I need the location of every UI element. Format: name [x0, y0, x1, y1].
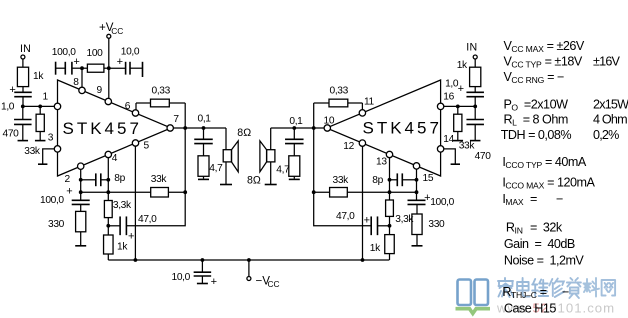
svg-text:2: 2 [65, 174, 71, 185]
svg-text:33k: 33k [24, 146, 41, 157]
label 100,0 right bottom [430, 197, 454, 208]
wire rail to pin 8 [81, 68, 83, 87]
junction rail 10,0 [201, 258, 205, 262]
capacitor 8p left [81, 173, 109, 186]
label 1,0 left [1, 102, 15, 113]
resistor 100 top [82, 64, 109, 72]
terminal -VCC [247, 260, 251, 281]
label 330 left [48, 219, 65, 230]
label 47,0 left [138, 214, 157, 225]
svg-text:9: 9 [97, 85, 103, 96]
wire 0,33 to pin 6 [135, 103, 137, 110]
label + of 1,0 left [9, 84, 15, 96]
wire output right [271, 127, 325, 129]
svg-text:7: 7 [173, 114, 179, 125]
label pin 16 [443, 91, 454, 102]
op-amp U2 STK457 right triangle [327, 80, 441, 176]
label + of 100,0 left bottom [66, 186, 72, 198]
label 3,3k left [113, 200, 132, 211]
svg-text:0,33: 0,33 [330, 86, 349, 97]
svg-text:3: 3 [48, 133, 54, 144]
svg-text:11: 11 [364, 96, 375, 107]
svg-text:3,3k: 3,3k [395, 214, 414, 225]
svg-text:= 32k: = 32k [530, 221, 563, 235]
wire speaker right [270, 128, 272, 185]
junction pin8 vcc rail [80, 66, 84, 70]
svg-text:33k: 33k [151, 174, 168, 185]
capacitor 0,1 left [194, 128, 213, 156]
capacitor 0,1 right [285, 128, 304, 156]
svg-text:±16V: ±16V [593, 55, 621, 69]
ground of 470 left [18, 140, 29, 142]
label pin 14 [443, 134, 454, 145]
junction feedback output right [312, 190, 316, 194]
svg-text:470: 470 [475, 151, 492, 162]
ground of 470 right [470, 140, 481, 142]
svg-text:1,0: 1,0 [445, 79, 459, 90]
resistor 3,3k right [386, 200, 394, 235]
wire output column right [313, 128, 315, 192]
junction zobel right [292, 126, 296, 130]
svg-text:16: 16 [443, 91, 454, 102]
svg-text:Gain = 40dB: Gain = 40dB [504, 237, 575, 251]
capacitor 10,0 bottom [194, 260, 212, 284]
label pin 4 [112, 153, 118, 164]
junction pin4 feedback [106, 190, 110, 194]
label 0,1 right [289, 116, 303, 127]
svg-text:470: 470 [3, 128, 20, 139]
ground of pin 3 [38, 163, 47, 165]
svg-text:0,33: 0,33 [152, 86, 171, 97]
label 4,7 right [276, 165, 290, 176]
label 330 right [428, 219, 445, 230]
svg-text:2x15W: 2x15W [593, 98, 628, 112]
ground of 10,0 bottom [197, 283, 208, 285]
label 33k feedback right [333, 175, 350, 186]
resistor 1k right bottom [385, 235, 395, 260]
junction pin13 8p [388, 178, 392, 182]
capacitor 470 right [466, 106, 484, 140]
label pin 2 [65, 174, 71, 185]
svg-text:100,0: 100,0 [430, 197, 454, 208]
junction pin15 feedback [415, 190, 419, 194]
label 33k right input [459, 141, 476, 152]
svg-text:100: 100 [87, 48, 104, 59]
resistor 330 left [76, 204, 86, 245]
svg-text:10,0: 10,0 [172, 272, 191, 283]
resistor 1k left bottom [104, 235, 114, 260]
svg-text:10: 10 [324, 115, 335, 126]
svg-text:−: − [562, 285, 569, 299]
label 1k left bottom [117, 242, 128, 253]
wire feedback right [314, 191, 417, 193]
svg-text:CC: CC [111, 26, 123, 36]
resistor 3,3k left [104, 201, 112, 236]
junction rail pin12col [361, 258, 365, 262]
svg-text:STK457: STK457 [363, 119, 442, 138]
wire -vcc rail [108, 259, 389, 261]
wire pin 3 to ground [43, 149, 55, 164]
resistor 4,7 left [198, 156, 209, 179]
capacitor 8p right [390, 173, 417, 186]
watermark chinese text jiadianweixiuziliaowang [498, 278, 615, 298]
ground of pin 14 [451, 163, 460, 165]
junction input node left [21, 105, 25, 109]
label pin 1 [43, 92, 49, 103]
ground of speaker right [265, 184, 277, 186]
label 0,1 left [198, 114, 212, 125]
junction 33k tap right [456, 105, 460, 109]
ground of 330 right [412, 245, 423, 247]
pin 5 [132, 140, 138, 146]
junction output column right [312, 126, 316, 130]
svg-text:+: + [66, 186, 72, 198]
pin 16 [437, 103, 443, 109]
junction pin2 8p [79, 178, 83, 182]
pin 15 [413, 163, 419, 169]
resistor 1k right input [470, 67, 481, 92]
wire input node to pin 1 left [23, 105, 55, 107]
label pin 12 [343, 141, 354, 152]
pin 9 [105, 98, 111, 104]
capacitor 1,0 left [14, 92, 32, 106]
wire pin 15 column [416, 169, 418, 200]
label 100,0 left bottom [40, 195, 64, 206]
input terminal IN right [473, 55, 477, 67]
svg-text:0,1: 0,1 [289, 116, 303, 127]
label + of 1,0 right [458, 83, 464, 95]
label 8p left [114, 173, 125, 184]
label 1k right input [457, 60, 468, 71]
pin 6 [132, 110, 138, 116]
svg-text:10,0: 10,0 [121, 47, 140, 58]
label 0,33 right [330, 86, 349, 97]
ground of 33k left input [35, 140, 46, 142]
label STK457 left [63, 119, 142, 138]
resistor 33k left input [36, 106, 44, 140]
pin 12 [359, 140, 365, 146]
wire speaker left [225, 128, 227, 185]
pin 2 [78, 163, 84, 169]
svg-text:Noise = 1,2mV: Noise = 1,2mV [504, 254, 585, 268]
ground of 4,7 right [289, 178, 300, 180]
label IN left [20, 43, 31, 55]
input terminal IN left [21, 55, 25, 67]
label pin 6 [125, 101, 131, 112]
label 100,0 top [52, 47, 76, 58]
svg-text:+: + [9, 84, 15, 96]
svg-text:12: 12 [343, 141, 354, 152]
label pin 15 [423, 173, 434, 184]
svg-text:100,0: 100,0 [52, 47, 76, 58]
wire pin 5 to rail [134, 146, 136, 260]
svg-text:STK457: STK457 [63, 119, 142, 138]
label pin 7 [173, 114, 179, 125]
capacitor 47,0 right [371, 216, 389, 235]
svg-text:6: 6 [125, 101, 131, 112]
pin 14 [437, 146, 443, 152]
svg-text:8p: 8p [114, 173, 125, 184]
watermark book icon [456, 280, 491, 314]
svg-text:330: 330 [48, 219, 65, 230]
label +VCC [99, 21, 123, 36]
svg-text:8p: 8p [372, 175, 383, 186]
svg-text:1: 1 [43, 92, 49, 103]
svg-text:33k: 33k [333, 175, 350, 186]
op-amp U1 STK457 left triangle [58, 80, 172, 176]
svg-text:IN: IN [466, 42, 477, 54]
svg-text:1,0: 1,0 [1, 102, 15, 113]
label + of 10,0 top [117, 56, 123, 68]
junction rail -vcc [247, 258, 251, 262]
speaker right 8ohm [260, 141, 275, 172]
wire 0,33 to pin 11 [361, 103, 363, 110]
label 33k left input [24, 146, 41, 157]
capacitor 100,0 right bottom [408, 200, 426, 204]
pin 1 [54, 103, 60, 109]
pin 4 [105, 151, 111, 157]
svg-text:IN: IN [20, 43, 31, 55]
svg-text:4: 4 [112, 153, 118, 164]
label 100 top [87, 48, 104, 59]
label + of 100,0 top [73, 56, 79, 68]
label pin 5 [144, 141, 150, 152]
svg-text:100,0: 100,0 [40, 195, 64, 206]
resistor 0,33 left [136, 99, 185, 107]
junction output column left [183, 126, 187, 130]
label 33k feedback left [151, 174, 168, 185]
svg-text:+: + [364, 215, 370, 227]
junction 47,0 right [388, 224, 392, 228]
svg-text:0,2%: 0,2% [593, 128, 619, 142]
svg-text:=: = [530, 192, 537, 206]
label 1,0 right [445, 79, 459, 90]
resistor 33k feedback left [151, 188, 169, 198]
svg-text:+: + [117, 56, 123, 68]
ground of speaker left [220, 184, 232, 186]
svg-text:1k: 1k [370, 243, 381, 254]
label 47,0 right [336, 211, 355, 222]
ground of 10,0 top [142, 62, 144, 77]
speaker left 8ohm [223, 141, 238, 172]
resistor 33k feedback right [330, 188, 348, 198]
label + of 47,0 right [364, 215, 370, 227]
label 1k right bottom [370, 243, 381, 254]
resistor 1k left input [17, 67, 28, 92]
wire output left [173, 127, 226, 129]
wire 0,33 to output column left [184, 103, 186, 128]
pin 10 [324, 125, 330, 131]
label 1k left input [33, 71, 44, 82]
svg-text:+: + [128, 231, 134, 243]
label 10,0 top [121, 47, 140, 58]
capacitor 100,0 left bottom [72, 200, 90, 204]
svg-text:8: 8 [73, 77, 79, 88]
svg-text:33k: 33k [459, 141, 476, 152]
wire input node to pin 16 right [444, 105, 475, 107]
label -VCC [256, 275, 280, 290]
junction feedback output left [183, 190, 187, 194]
svg-text:+: + [458, 83, 464, 95]
label + of 10,0 bottom [211, 276, 217, 288]
svg-text:Case H15: Case H15 [504, 302, 556, 316]
label pin 8 [73, 77, 79, 88]
svg-text:14: 14 [443, 134, 454, 145]
resistor 4,7 right [289, 156, 300, 179]
svg-text:4 Ohm: 4 Ohm [593, 113, 627, 127]
pin 11 [359, 110, 365, 116]
label 8p right [372, 175, 383, 186]
label 10,0 bottom [172, 272, 191, 283]
ground of 4,7 left [198, 178, 209, 180]
wire output column to 47,0 right [314, 192, 372, 226]
svg-text:0,1: 0,1 [198, 114, 212, 125]
resistor 0,33 right [314, 99, 363, 107]
capacitor 1,0 right [466, 92, 484, 106]
svg-text:15: 15 [423, 173, 434, 184]
resistor 33k right input [454, 106, 462, 140]
svg-text:+: + [211, 276, 217, 288]
label STK457 right [363, 119, 442, 138]
junction pin15 8p [415, 178, 419, 182]
svg-text:5: 5 [144, 141, 150, 152]
label pin 11 [364, 96, 375, 107]
ground of 330 left [75, 245, 86, 247]
label 0,33 left [152, 86, 171, 97]
terminal +VCC [107, 34, 111, 98]
label 8ohm left [237, 127, 251, 139]
svg-text:8Ω: 8Ω [237, 127, 251, 139]
junction zobel left [202, 126, 206, 130]
junction pin4 8p [106, 178, 110, 182]
wire pin 13 column [389, 158, 391, 200]
wire pin 12 to rail [362, 146, 364, 260]
svg-text:4,7: 4,7 [209, 163, 223, 174]
junction 33k tap left [38, 105, 42, 109]
svg-text:CC: CC [268, 279, 280, 289]
capacitor 47,0 left [108, 216, 126, 235]
svg-text:1k: 1k [457, 60, 468, 71]
svg-text:330: 330 [428, 219, 445, 230]
capacitor 10,0 top [109, 62, 143, 75]
wire output column to 47,0 left [126, 192, 185, 226]
capacitor 470 left [14, 106, 32, 140]
svg-text:1k: 1k [33, 71, 44, 82]
resistor 330 right [412, 204, 422, 245]
label + of 100,0 right bottom [424, 192, 430, 204]
wire pin 4 column [107, 158, 109, 201]
svg-text:1k: 1k [117, 242, 128, 253]
junction rail pin5col [134, 258, 138, 262]
label pin 13 [376, 157, 387, 168]
pin 8 [79, 87, 85, 93]
wire feedback left [81, 191, 186, 193]
junction vcc column [107, 66, 111, 70]
svg-text:8Ω: 8Ω [247, 175, 261, 187]
capacitor 100,0 left top [56, 62, 82, 75]
wire pin 14 to ground [444, 149, 456, 164]
svg-text:−: − [556, 192, 563, 206]
label 4,7 left [209, 163, 223, 174]
svg-text:4,7: 4,7 [276, 165, 290, 176]
junction input node right [473, 105, 477, 109]
label pin 10 [324, 115, 335, 126]
junction pin13 feedback [388, 190, 392, 194]
label 8ohm right [247, 175, 261, 187]
label IN right [466, 42, 477, 54]
svg-text:3,3k: 3,3k [113, 200, 132, 211]
wire output column left [184, 128, 186, 192]
label 3,3k right [395, 214, 414, 225]
junction 47,0 left [106, 224, 110, 228]
wire pin 2 column [80, 169, 82, 200]
svg-text:47,0: 47,0 [336, 211, 355, 222]
label 470 left [3, 128, 20, 139]
pin 7 [167, 125, 173, 131]
pin 3 [54, 146, 60, 152]
label 470 right [475, 151, 492, 162]
label pin 3 [48, 133, 54, 144]
ground of 33k right input [453, 140, 464, 142]
svg-text:47,0: 47,0 [138, 214, 157, 225]
pin 13 [386, 151, 392, 157]
svg-text:TDH = 0,08%: TDH = 0,08% [501, 128, 572, 142]
svg-text:13: 13 [376, 157, 387, 168]
junction pin2 feedback [79, 190, 83, 194]
wire 0,33 to output column right [313, 103, 315, 128]
label + of 47,0 left [128, 231, 134, 243]
label pin 9 [97, 85, 103, 96]
